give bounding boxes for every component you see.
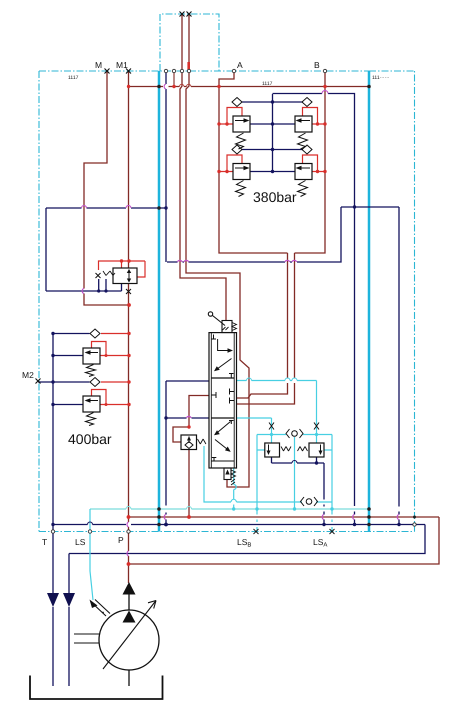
- wire navy bus: [53, 524, 425, 526]
- svg-text:B: B: [314, 60, 320, 70]
- wire port B loop: [295, 72, 326, 253]
- wire 400bar check2 connect: [101, 381, 129, 383]
- svg-text:LS: LS: [75, 537, 86, 547]
- wire right vertical x399 down: [398, 207, 400, 525]
- wire navy left rect x46: [45, 208, 47, 291]
- wire navy rail y208: [46, 207, 166, 209]
- relief valve 380 box1R: [295, 116, 312, 132]
- svg-text:P: P: [118, 535, 124, 545]
- wire compensator left port: [257, 435, 265, 510]
- svg-text:1117: 1117: [262, 81, 273, 87]
- wire orifice drop x294.5: [294, 437, 296, 509]
- wire pilot line b from top box: [186, 14, 249, 487]
- node stub line x174: [173, 73, 175, 87]
- arrowheads 380 boxes: [244, 118, 250, 122]
- wire compensator top rail: [257, 434, 332, 436]
- wire port A loop: [219, 72, 288, 253]
- magenta crossing hops: [82, 84, 400, 556]
- wire pilot-supply thick cyan vertical: [158, 71, 161, 532]
- wire 400bar relief2 connect: [92, 390, 130, 405]
- wire pilot line a from top box: [180, 14, 226, 321]
- relief valve 400 box2: [83, 396, 100, 412]
- check valve diamond 380 2R: [302, 145, 312, 154]
- main control valve body: [209, 333, 237, 468]
- wire check valve side loop: [173, 427, 189, 442]
- svg-text:A: A: [237, 60, 243, 70]
- check valve diamond 400 1: [90, 329, 100, 338]
- check valve diamond 380 2L: [232, 145, 242, 154]
- wire navy bus wrap: [69, 525, 425, 554]
- wire LSB port drop: [256, 509, 258, 532]
- tank flow arrows on T lines: [47, 593, 75, 607]
- wire valve P port to check valve: [189, 396, 209, 428]
- compensator box right: [298, 443, 325, 457]
- wire 400bar relief1 connect: [92, 342, 130, 356]
- wire compensator drain rail y463: [272, 457, 325, 463]
- check valve box (load holding): [181, 435, 206, 450]
- boundary node circles: [51, 69, 416, 533]
- wire A drop to valve: [237, 253, 288, 398]
- wire compensator right port: [325, 435, 333, 510]
- wire navy x166 lower: [165, 381, 167, 525]
- navy junction dots: [51, 100, 400, 526]
- wire 380bar left box2 connect: [219, 155, 242, 172]
- wire 380bar left box1 connect: [219, 108, 242, 125]
- wire pilot-supply thick cyan vertical right: [368, 71, 371, 532]
- wire 400bar navy rail x53: [38, 334, 90, 525]
- compensator box left: [265, 443, 291, 457]
- X plug marks on sense lines: [269, 423, 319, 430]
- valve sec3 symbols: [229, 421, 234, 425]
- wire LSA port drop: [331, 509, 333, 532]
- wire B drop to valve: [237, 253, 295, 404]
- relief valve 400 box1: [83, 348, 100, 364]
- wire red bus: [129, 516, 440, 518]
- red crossing hops: [180, 84, 191, 86]
- wire right LS header y207: [341, 206, 399, 208]
- valve sec2 symbols: [211, 392, 216, 398]
- wire LS-B sense from valve: [237, 418, 272, 443]
- relief valve 380 box2R: [295, 164, 312, 180]
- wire M gauge line: [84, 71, 129, 305]
- svg-text:400bar: 400bar: [68, 431, 112, 447]
- check valve diamond 380 1L: [232, 98, 242, 107]
- cyan junction dots: [232, 433, 334, 511]
- orifice X below reducing valve: [126, 289, 131, 294]
- valve arrowheads: [228, 348, 234, 352]
- pump circle: [74, 594, 159, 686]
- wire right vertical x355 down: [354, 207, 356, 525]
- svg-text:M2: M2: [22, 370, 34, 380]
- wire red rail y86 M1-to-right: [129, 86, 370, 88]
- boundary top sub-box: [160, 14, 219, 71]
- wire drain line y261: [167, 207, 341, 262]
- wire navy node line x166 upper: [165, 72, 167, 262]
- black dots on pilot supply line: [157, 85, 416, 527]
- svg-text:M1: M1: [116, 60, 128, 70]
- check valve diamond 400 2: [90, 378, 100, 387]
- valve top pilot: [208, 312, 236, 333]
- check valve diamond 380 1R: [302, 98, 312, 107]
- wire cyan LS bus: [90, 508, 369, 510]
- orifice symbol lower: [301, 497, 318, 506]
- orifice symbol upper: [286, 429, 303, 438]
- svg-text:T: T: [42, 537, 47, 547]
- relief valve 380 box1L: [233, 116, 250, 132]
- wire 400bar check1 connect: [101, 333, 129, 335]
- svg-text:1117: 1117: [68, 75, 79, 81]
- wire valve left work line y381: [166, 380, 209, 382]
- wire tank line 2: [68, 554, 70, 687]
- wire 380bar right box2 connect: [303, 155, 326, 172]
- red junction dots: [105, 85, 327, 566]
- wire LS line to pump lever: [90, 509, 93, 600]
- tank symbol: [30, 676, 163, 700]
- wire compensator drain drop x324: [323, 463, 325, 525]
- svg-text:380bar: 380bar: [253, 189, 297, 205]
- boundary main dash-dot frame: [39, 71, 415, 532]
- wire red bus wrap to pump: [129, 517, 440, 564]
- valve sec1 symbols: [211, 335, 216, 340]
- arrowheads 400 boxes: [85, 350, 91, 354]
- wire top box stub: [187, 62, 190, 71]
- wire reducing valve loop: [99, 261, 146, 277]
- wire LS-A sense from valve: [237, 381, 317, 444]
- wire 380bar right box1 connect: [303, 108, 326, 125]
- wire M1 gauge line vertical: [128, 71, 130, 583]
- wire check spring line x204: [204, 446, 332, 502]
- boundary X marks M M1 M2 and top box: [36, 12, 335, 535]
- pump arrows: [123, 582, 136, 595]
- cyan crossing hops: [231, 378, 297, 502]
- svg-text:M: M: [95, 60, 102, 70]
- valve bottom pilot: [224, 468, 236, 485]
- wire navy rail y291: [46, 279, 122, 291]
- wire valve left line y418: [166, 417, 209, 419]
- wire valve T drop x233.7: [233, 468, 235, 509]
- pressure reducing valve: [96, 268, 138, 284]
- svg-text:111······: 111······: [372, 75, 390, 81]
- relief valve 380 box2L: [233, 164, 250, 180]
- wire tank gallery top right: [273, 94, 355, 208]
- wire check valve lower line to red bus: [188, 450, 190, 517]
- wire 380 center gallery: [242, 94, 303, 172]
- wire tank line T: [52, 525, 54, 687]
